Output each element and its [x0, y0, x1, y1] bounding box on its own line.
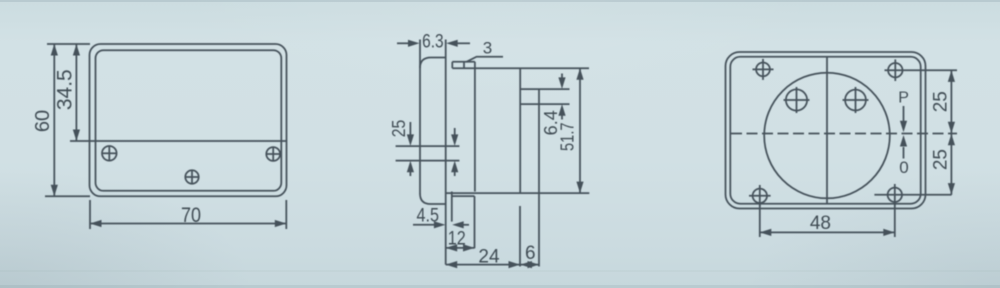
- dim 6.4 arrow stems: [561, 74, 563, 79]
- body bottom line: [446, 192, 590, 194]
- back big circle: [764, 73, 890, 199]
- svg-text:48: 48: [810, 213, 831, 234]
- ext 48 left: [759, 203, 761, 237]
- terminal bottom line: [520, 103, 569, 105]
- ext line 24 mid: [519, 206, 521, 267]
- arrows dim 4.5: [434, 221, 446, 228]
- arrows dim 25 side: [407, 134, 414, 146]
- bezel left edge + extension: [419, 40, 421, 195]
- photo edge bottom: [0, 285, 1000, 288]
- bezel bottom corner: [420, 194, 446, 205]
- dim 12 line: [446, 247, 475, 249]
- arrows dim 6.3: [408, 40, 420, 47]
- svg-text:60: 60: [32, 110, 54, 132]
- ext line 70 left: [89, 200, 91, 229]
- svg-text:34.5: 34.5: [53, 69, 76, 110]
- svg-text:25: 25: [931, 91, 952, 112]
- bezel top corner: [420, 58, 446, 69]
- arrows dim 70: [90, 220, 102, 227]
- svg-text:3: 3: [483, 39, 492, 58]
- dim 25 arrow stems: [409, 122, 411, 136]
- front screw right: [266, 147, 280, 161]
- arrows dim 6: [520, 261, 532, 268]
- arrows dim 6.4: [558, 77, 565, 89]
- dim 25 bottom line: [950, 134, 952, 195]
- dim 48 line: [760, 231, 895, 233]
- back inner rounded rect: [730, 57, 920, 204]
- dim 51.7 line: [579, 68, 581, 193]
- dim 25 top line: [950, 70, 952, 133]
- svg-text:4.5: 4.5: [417, 206, 440, 227]
- extension line top: [47, 43, 90, 45]
- svg-text:25: 25: [389, 120, 409, 138]
- svg-text:6.3: 6.3: [422, 32, 444, 53]
- terminal top line: [520, 88, 569, 90]
- tab divider: [463, 62, 465, 68]
- dim 24 and 6 line: [446, 264, 539, 266]
- svg-text:24: 24: [478, 247, 500, 268]
- dim 34.5 line: [75, 44, 77, 141]
- back horizontal dashed center line: [731, 133, 957, 135]
- leader for 3: [467, 57, 504, 62]
- arrows dim 51.7: [576, 68, 583, 80]
- back outer rounded rect: [726, 52, 926, 209]
- arrows dim 34.5: [73, 44, 80, 56]
- internal vertical line: [474, 62, 476, 192]
- hole top-left: [756, 63, 770, 77]
- arrows dim 12: [446, 244, 458, 251]
- tab left: [451, 62, 453, 68]
- ext 48 right: [894, 202, 896, 237]
- front screw bottom: [185, 170, 198, 183]
- arrows dim 25 back top: [948, 70, 955, 82]
- arrows P-0: [900, 121, 907, 133]
- dim 60 line: [53, 44, 55, 196]
- step left line: [451, 192, 453, 222]
- back vertical center line: [826, 57, 828, 204]
- extension line bottom: [45, 195, 90, 197]
- front outer case rounded rect: [90, 44, 287, 196]
- svg-text:70: 70: [181, 204, 201, 227]
- terminal right: [845, 90, 866, 111]
- svg-text:12: 12: [448, 229, 466, 250]
- svg-text:51.7: 51.7: [558, 122, 578, 151]
- dim 25 top line: [396, 145, 460, 147]
- front screw left: [102, 146, 117, 161]
- terminal left: [786, 89, 807, 110]
- photo edge top: [0, 0, 1000, 2]
- arrows dim 60: [51, 44, 58, 56]
- svg-text:P: P: [898, 90, 909, 107]
- P-0 arrow stems: [903, 106, 905, 122]
- case front line: [445, 40, 447, 265]
- front divider line with left extension: [70, 140, 287, 142]
- ext line 12 right: [474, 196, 476, 248]
- svg-text:25: 25: [931, 149, 952, 170]
- hole bottom-right: [888, 188, 902, 202]
- svg-text:0: 0: [899, 158, 908, 177]
- hole bottom-left: [753, 189, 767, 203]
- arrows dim 48: [760, 229, 772, 236]
- tab top: [452, 61, 475, 63]
- body back line: [519, 68, 521, 193]
- ext line 70 right: [285, 200, 287, 229]
- dim 4.5 tails: [413, 224, 435, 226]
- body top line: [452, 67, 589, 69]
- step top line: [452, 195, 475, 197]
- arrows dim 25 back bottom: [948, 134, 955, 146]
- dim 70 line: [90, 223, 286, 225]
- terminal back line extended: [538, 89, 540, 266]
- arrows dim 24: [446, 261, 458, 268]
- dim 25 bottom line: [396, 160, 460, 162]
- front inner bezel rounded rect: [96, 50, 282, 191]
- svg-text:6: 6: [525, 243, 536, 264]
- dim 6.3 tails: [397, 42, 409, 44]
- hole top-right: [888, 63, 902, 77]
